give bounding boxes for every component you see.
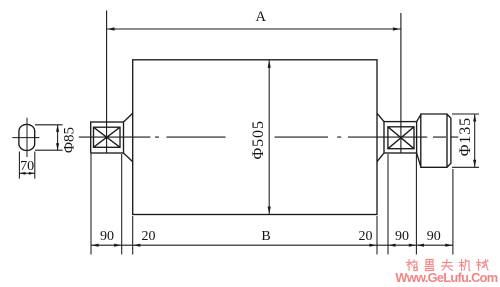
wire: taper right top xyxy=(377,113,384,121)
svg-text:Φ505: Φ505 xyxy=(250,120,267,159)
wire: obround horizontal centerline xyxy=(12,137,39,139)
arrow phi85 top xyxy=(56,125,59,132)
dim phi505 line xyxy=(268,60,270,215)
dim 70 ext right xyxy=(34,152,36,179)
dim A line xyxy=(107,28,401,30)
svg-text:Φ85: Φ85 xyxy=(62,127,78,153)
arrow phi505 top xyxy=(268,60,271,68)
arrow A left xyxy=(107,27,115,30)
ext drum left xyxy=(132,216,134,255)
bearing R1 inner xyxy=(388,127,414,149)
svg-text:A: A xyxy=(255,9,266,25)
centerline xyxy=(79,136,459,138)
svg-text:90: 90 xyxy=(427,229,441,244)
bearing L1 outer xyxy=(91,122,124,153)
arrow chain 416.4 left xyxy=(416,244,424,247)
svg-text:Www.GeLufu.Com: Www.GeLufu.Com xyxy=(395,270,497,285)
svg-text:90: 90 xyxy=(395,229,409,244)
dim phi85 ext top xyxy=(35,124,63,126)
svg-text:90: 90 xyxy=(100,229,114,244)
arrow chain 132.7 left xyxy=(133,244,141,247)
wire: taper left top xyxy=(124,113,133,122)
arrow phi135 bottom xyxy=(473,160,476,168)
hub body xyxy=(421,114,451,167)
shaft-end section obround xyxy=(19,124,35,150)
ext bearingR right xyxy=(415,154,417,255)
arrow 70 left xyxy=(19,172,25,175)
arrow phi135 top xyxy=(473,114,476,122)
wire: A extension left through bearing xyxy=(106,11,108,154)
ext drum right xyxy=(376,216,378,255)
svg-text:B: B xyxy=(261,229,270,244)
arrow 70 right xyxy=(29,172,35,175)
ext hub right xyxy=(452,169,454,255)
bearing R1 cross xyxy=(388,127,414,149)
bearing L1 inner xyxy=(94,127,121,147)
svg-text:70: 70 xyxy=(20,159,34,174)
bearing R1 outer xyxy=(384,122,417,153)
dim phi85 ext bottom xyxy=(35,149,63,151)
dim phi85 line xyxy=(57,125,59,150)
arrow chain 91 left xyxy=(91,244,99,247)
svg-text:20: 20 xyxy=(142,229,156,244)
arrow A right xyxy=(393,27,401,30)
dim phi135 line xyxy=(474,114,476,167)
arrow chain 416.4 right xyxy=(409,244,417,247)
ext bearingR left xyxy=(387,154,389,255)
svg-text:Φ135: Φ135 xyxy=(457,117,474,156)
drum body xyxy=(133,60,377,215)
arrow phi85 bottom xyxy=(56,143,59,150)
wire: A extension right through bearing xyxy=(400,13,402,153)
arrow chain 452.9 right xyxy=(445,244,453,247)
wire: hub join bottom xyxy=(417,153,421,167)
ext bearingL left xyxy=(90,154,92,255)
arrow chain 388 left xyxy=(388,244,396,247)
dim phi135 ext bottom xyxy=(452,166,479,168)
wire: hub join top xyxy=(417,115,421,122)
bearing L1 cross xyxy=(94,127,121,147)
bottom chain dim line xyxy=(91,244,453,246)
svg-text:20: 20 xyxy=(359,229,373,244)
arrow chain 121.7 right xyxy=(114,244,122,247)
wire: taper right bottom xyxy=(377,153,384,162)
wire: taper left bottom xyxy=(124,153,133,162)
ext bearingL right xyxy=(121,154,123,255)
dim 70 ext left xyxy=(18,152,20,179)
dim 70 line xyxy=(19,172,34,174)
watermark CJK 格鲁夫机械 xyxy=(407,260,489,271)
arrow phi505 bottom xyxy=(268,207,271,215)
arrow chain 377 right xyxy=(369,244,377,247)
dim phi135 ext top xyxy=(452,113,479,115)
wire: obround vertical centerline xyxy=(26,118,28,157)
